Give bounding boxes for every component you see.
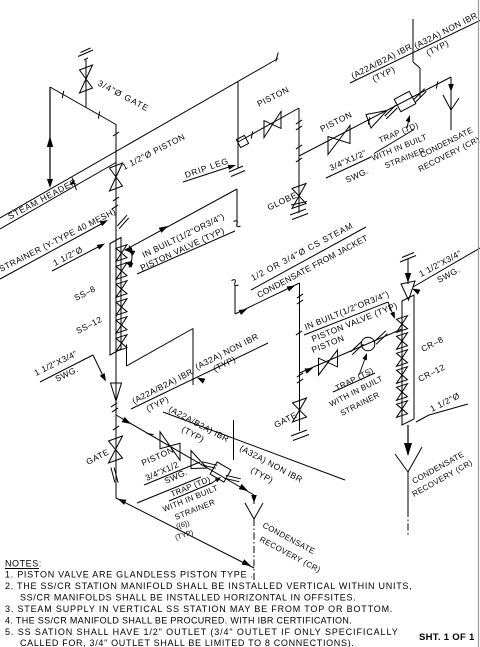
svg-text:1. PISTON VALVE ARE GLANDL: 1. PISTON VALVE ARE GLANDLESS PISTON TYP… <box>5 570 254 580</box>
trap TD st2 <box>394 91 416 111</box>
underline <box>326 157 371 178</box>
underline trap <box>374 130 414 154</box>
SS manifold valve 4 <box>116 299 127 316</box>
CR wye st2 <box>443 95 451 110</box>
leader arrow <box>97 244 105 250</box>
right leader arrow <box>412 289 420 295</box>
V5 end bars <box>291 430 307 436</box>
weld tick <box>111 403 117 407</box>
svg-text:3. STEAM SUPPLY IN VERTICA: 3. STEAM SUPPLY IN VERTICAL SS STATION M… <box>5 604 393 614</box>
weld tick st4 <box>146 433 153 434</box>
pipe steam-header riser <box>49 87 51 185</box>
underline L1 <box>137 231 235 274</box>
notes underline <box>5 568 39 570</box>
union slashes st4 <box>201 465 216 469</box>
inbuilt arrow 1 <box>124 247 132 252</box>
underline L2 <box>304 302 388 335</box>
union slashes st4b <box>224 478 239 482</box>
leader 1 1/2 dia <box>52 246 100 271</box>
L2 leader <box>388 302 394 317</box>
drain end bars <box>290 209 306 215</box>
pipe vent branch <box>85 60 87 107</box>
weld tick <box>297 294 303 298</box>
CR manifold valve 2 <box>397 333 408 350</box>
arrow st4 end <box>239 484 248 491</box>
arrow on supply <box>159 226 168 233</box>
arrow on underline alpha <box>197 378 205 384</box>
reducer st2 <box>366 111 387 129</box>
weld tick <box>296 145 302 149</box>
gate valve V5 <box>293 398 307 422</box>
weld tick <box>436 81 437 88</box>
bracket arc on manifold <box>129 246 132 268</box>
arrow down <box>405 273 411 283</box>
svg-text:4. THE SS/CR MANIFOLD SHAL: 4. THE SS/CR MANIFOLD SHALL BE PROCURED.… <box>5 616 352 626</box>
pipe cs vertical <box>234 285 236 314</box>
CR wye st4 <box>245 503 254 519</box>
flange box on drip leg <box>236 135 248 147</box>
arrow drain <box>242 559 251 566</box>
reducer st4 <box>191 451 207 469</box>
trap leader arrow <box>406 115 411 122</box>
underline cs1 <box>251 227 366 290</box>
leader 1.5dia <box>416 415 429 422</box>
arrow on st3 <box>305 368 314 374</box>
pipe supply line <box>125 189 237 250</box>
inbuilt arrow 2 <box>125 262 133 268</box>
arrow on cs <box>239 309 247 315</box>
pipe V3 <box>298 108 300 213</box>
svg-text:5. SS SATION SHALL HAVE 1: 5. SS SATION SHALL HAVE 1/2" OUTLET (3/4… <box>5 627 399 637</box>
trap td st4 leader arrow <box>215 477 221 482</box>
weld tick <box>113 197 119 201</box>
pipe CR down <box>407 425 409 455</box>
trap td st4 leader <box>212 478 219 483</box>
pipe V1 upper <box>115 124 117 237</box>
arrow at supply start <box>127 250 135 256</box>
weld tick <box>62 91 63 98</box>
piston valve st3 <box>319 350 338 375</box>
pipe station3 <box>300 329 403 373</box>
trap TD st4 <box>210 462 231 482</box>
pipe CR drop st2 <box>450 77 452 110</box>
CR dashline st4 <box>253 519 255 583</box>
weld tick <box>296 331 302 335</box>
pipe drip leg vertical <box>237 82 239 168</box>
underline alpha <box>131 343 268 409</box>
arrow st4 drop <box>251 495 257 503</box>
CR manifold valve 3 <box>397 350 408 367</box>
weld tick <box>112 205 118 209</box>
svg-text:CALLED FOR, 3/4" OUTLET SH: CALLED FOR, 3/4" OUTLET SHALL BE LIMITED… <box>20 638 354 647</box>
CR manifold valve 4 <box>397 367 408 384</box>
gate valve riser drain <box>109 436 123 463</box>
strainer leader <box>0 223 104 280</box>
pipe Z from manifold <box>126 345 128 367</box>
pipe top diagonal header-to-V1 <box>50 87 116 125</box>
globe valve <box>292 184 306 209</box>
union slashes drain <box>111 468 115 483</box>
CR manifold valve 5 <box>397 384 408 401</box>
pipe st4 drop <box>253 495 255 504</box>
CR manifold valve 1 <box>397 316 408 333</box>
strainer leader arrow <box>100 220 108 226</box>
union slashes <box>385 105 396 116</box>
underline <box>169 483 212 501</box>
weld tick <box>297 373 303 377</box>
boundary beta <box>233 420 235 460</box>
union slashes <box>414 89 425 100</box>
flow arrow up on riser <box>47 136 53 147</box>
SS manifold tube <box>110 238 121 356</box>
pipe main 30deg line H1 <box>0 59 278 219</box>
vent-to-atmosphere bars <box>78 50 93 57</box>
ts leader arrow <box>362 353 367 360</box>
pipe V5 <box>299 283 301 431</box>
weld tick <box>368 117 369 124</box>
pipe cs diagonal <box>235 283 300 314</box>
trap leader <box>407 119 409 128</box>
piston valve on V1 <box>110 163 123 191</box>
CR manifold valve 6 <box>397 401 408 418</box>
union slashes st3b <box>375 331 386 342</box>
underline left swage <box>40 355 93 382</box>
union slashes st3 <box>351 341 362 352</box>
underline swg st4 <box>137 477 201 503</box>
arrow into header <box>47 179 53 188</box>
end tick H1 <box>276 53 278 62</box>
junction tick <box>296 158 302 162</box>
weld tick <box>113 132 119 136</box>
svg-text:2. THE SS/CR STATION MANIF: 2. THE SS/CR STATION MANIFOLD SHALL BE I… <box>5 581 412 591</box>
boundary alpha <box>192 329 194 386</box>
arrow CR down <box>404 443 412 456</box>
steam header label bracket <box>72 178 77 191</box>
globe seat <box>291 202 307 206</box>
pipe station2 <box>299 77 451 156</box>
arrow st4 <box>122 417 131 424</box>
ts leader <box>359 356 366 375</box>
gate valve 3/4 vent <box>80 65 93 93</box>
leader arrow <box>100 373 106 381</box>
strainer double slash <box>117 215 127 226</box>
pipe riser inside manifold <box>115 237 117 498</box>
piston valve st1 <box>264 111 281 137</box>
reducer funnel <box>401 281 415 300</box>
SS manifold valve 5 <box>116 317 127 334</box>
SS manifold valve 6 <box>116 335 127 352</box>
junction tick <box>297 379 303 383</box>
svg-text:SS/CR MANIFOLDS SHALL BE I: SS/CR MANIFOLDS SHALL BE INSTALLED HORIZ… <box>20 593 356 603</box>
boundary gamma <box>412 19 414 62</box>
weld tick <box>296 120 302 124</box>
underline beta <box>163 412 345 480</box>
drip leg leader arrow <box>228 165 236 170</box>
arrow at drain corner <box>118 499 126 505</box>
break squiggle cs <box>232 280 239 286</box>
piston valve st4 <box>160 432 180 461</box>
underline right <box>413 248 480 287</box>
L1 leader arrow b <box>126 261 133 265</box>
pipe below cap <box>407 259 409 284</box>
weld tick <box>98 111 99 118</box>
SS manifold valve 3 <box>116 281 127 298</box>
pipe header lower line H2 <box>0 163 116 230</box>
pipe station4 <box>116 415 254 495</box>
border right <box>478 0 480 647</box>
steam header label arrow <box>69 180 75 185</box>
underline st4 <box>144 462 200 485</box>
pipe drain diagonal <box>116 498 254 568</box>
underline trap ts <box>333 373 375 392</box>
arrow on cs 2 <box>287 286 295 292</box>
piston valve st2 <box>328 126 350 155</box>
SS manifold valve 2 <box>116 263 127 280</box>
underline gamma <box>350 21 480 84</box>
svg-text:NOTES:: NOTES: <box>5 559 42 569</box>
trap TS circle <box>361 337 375 351</box>
leader left swage <box>93 355 105 380</box>
break squiggle <box>234 221 241 227</box>
CR manifold tube <box>402 295 414 425</box>
weld tick <box>297 300 303 304</box>
SS manifold valve 1 <box>116 245 127 262</box>
weld tick <box>251 131 252 138</box>
drip leg leader <box>183 166 232 182</box>
CR dashline <box>407 510 409 537</box>
underline 1.5dia <box>429 404 468 415</box>
junction tick <box>113 426 119 430</box>
weld tick <box>112 408 118 412</box>
svg-text:SHT. 1 OF 1: SHT. 1 OF 1 <box>419 632 475 643</box>
cap bars top <box>400 256 416 263</box>
arrow on CR drop <box>448 84 454 92</box>
weld tick <box>296 126 302 130</box>
CR wye bottom <box>395 454 408 472</box>
L2 leader arrow <box>390 312 395 319</box>
drip leg end bars <box>229 166 243 172</box>
pipe supply vertical <box>236 189 238 225</box>
pipe station1 <box>238 108 299 142</box>
reducer on riser <box>111 383 122 401</box>
L1 leader arrow a <box>126 249 133 253</box>
